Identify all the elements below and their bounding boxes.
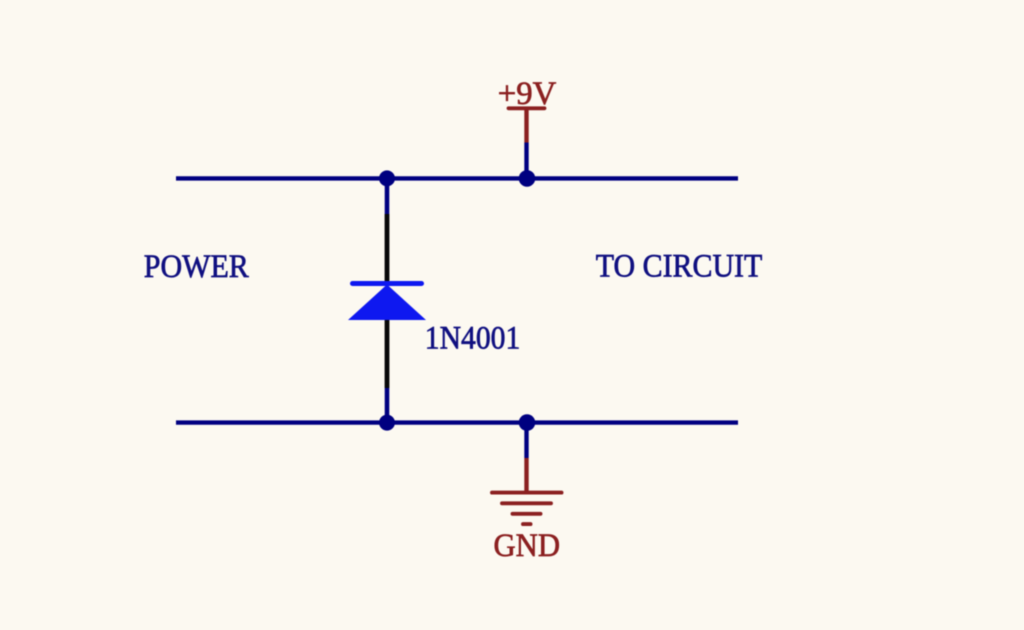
wire: bottom ground rail bbox=[176, 420, 738, 424]
ground symbol: stem (maroon) bbox=[524, 458, 528, 491]
node: junction dot bottom-left (diode tap on bottom rail) bbox=[379, 415, 395, 431]
ground symbol: bar 4 (shortest) bbox=[523, 522, 531, 526]
svg-text:1N4001: 1N4001 bbox=[425, 321, 521, 357]
svg-text:POWER: POWER bbox=[144, 249, 249, 285]
ground symbol: bar 2 bbox=[502, 501, 551, 505]
power symbol +9V: stem (maroon) bbox=[524, 109, 528, 143]
wire: +9V stem lower segment (navy) bbox=[524, 143, 528, 179]
wire: GND stem upper segment (navy) bbox=[524, 423, 528, 458]
wire: vertical branch from top rail to diode (navy) bbox=[385, 178, 390, 214]
node: junction dot bottom-right (GND tap on bottom rail) bbox=[519, 414, 536, 431]
node: junction dot top-right (+9V tap on top rail) bbox=[519, 170, 536, 187]
wire: vertical branch from diode to bottom rail (navy) bbox=[385, 388, 390, 423]
ground symbol: bar 3 bbox=[513, 512, 541, 516]
svg-text:TO CIRCUIT: TO CIRCUIT bbox=[596, 248, 763, 284]
svg-text:+9V: +9V bbox=[498, 76, 557, 112]
svg-text:GND: GND bbox=[494, 528, 561, 564]
wire: diode bottom lead (black) bbox=[385, 318, 390, 388]
diode D1 cathode bar bbox=[353, 281, 422, 286]
diode D1 anode triangle bbox=[348, 285, 426, 321]
wire: top supply rail bbox=[176, 176, 738, 180]
wire: diode top lead (black) bbox=[385, 214, 390, 284]
node: junction dot top-left (diode tap on top rail) bbox=[379, 170, 395, 186]
power symbol +9V: horizontal bar bbox=[509, 106, 545, 110]
ground symbol: bar 1 (longest) bbox=[492, 491, 562, 495]
